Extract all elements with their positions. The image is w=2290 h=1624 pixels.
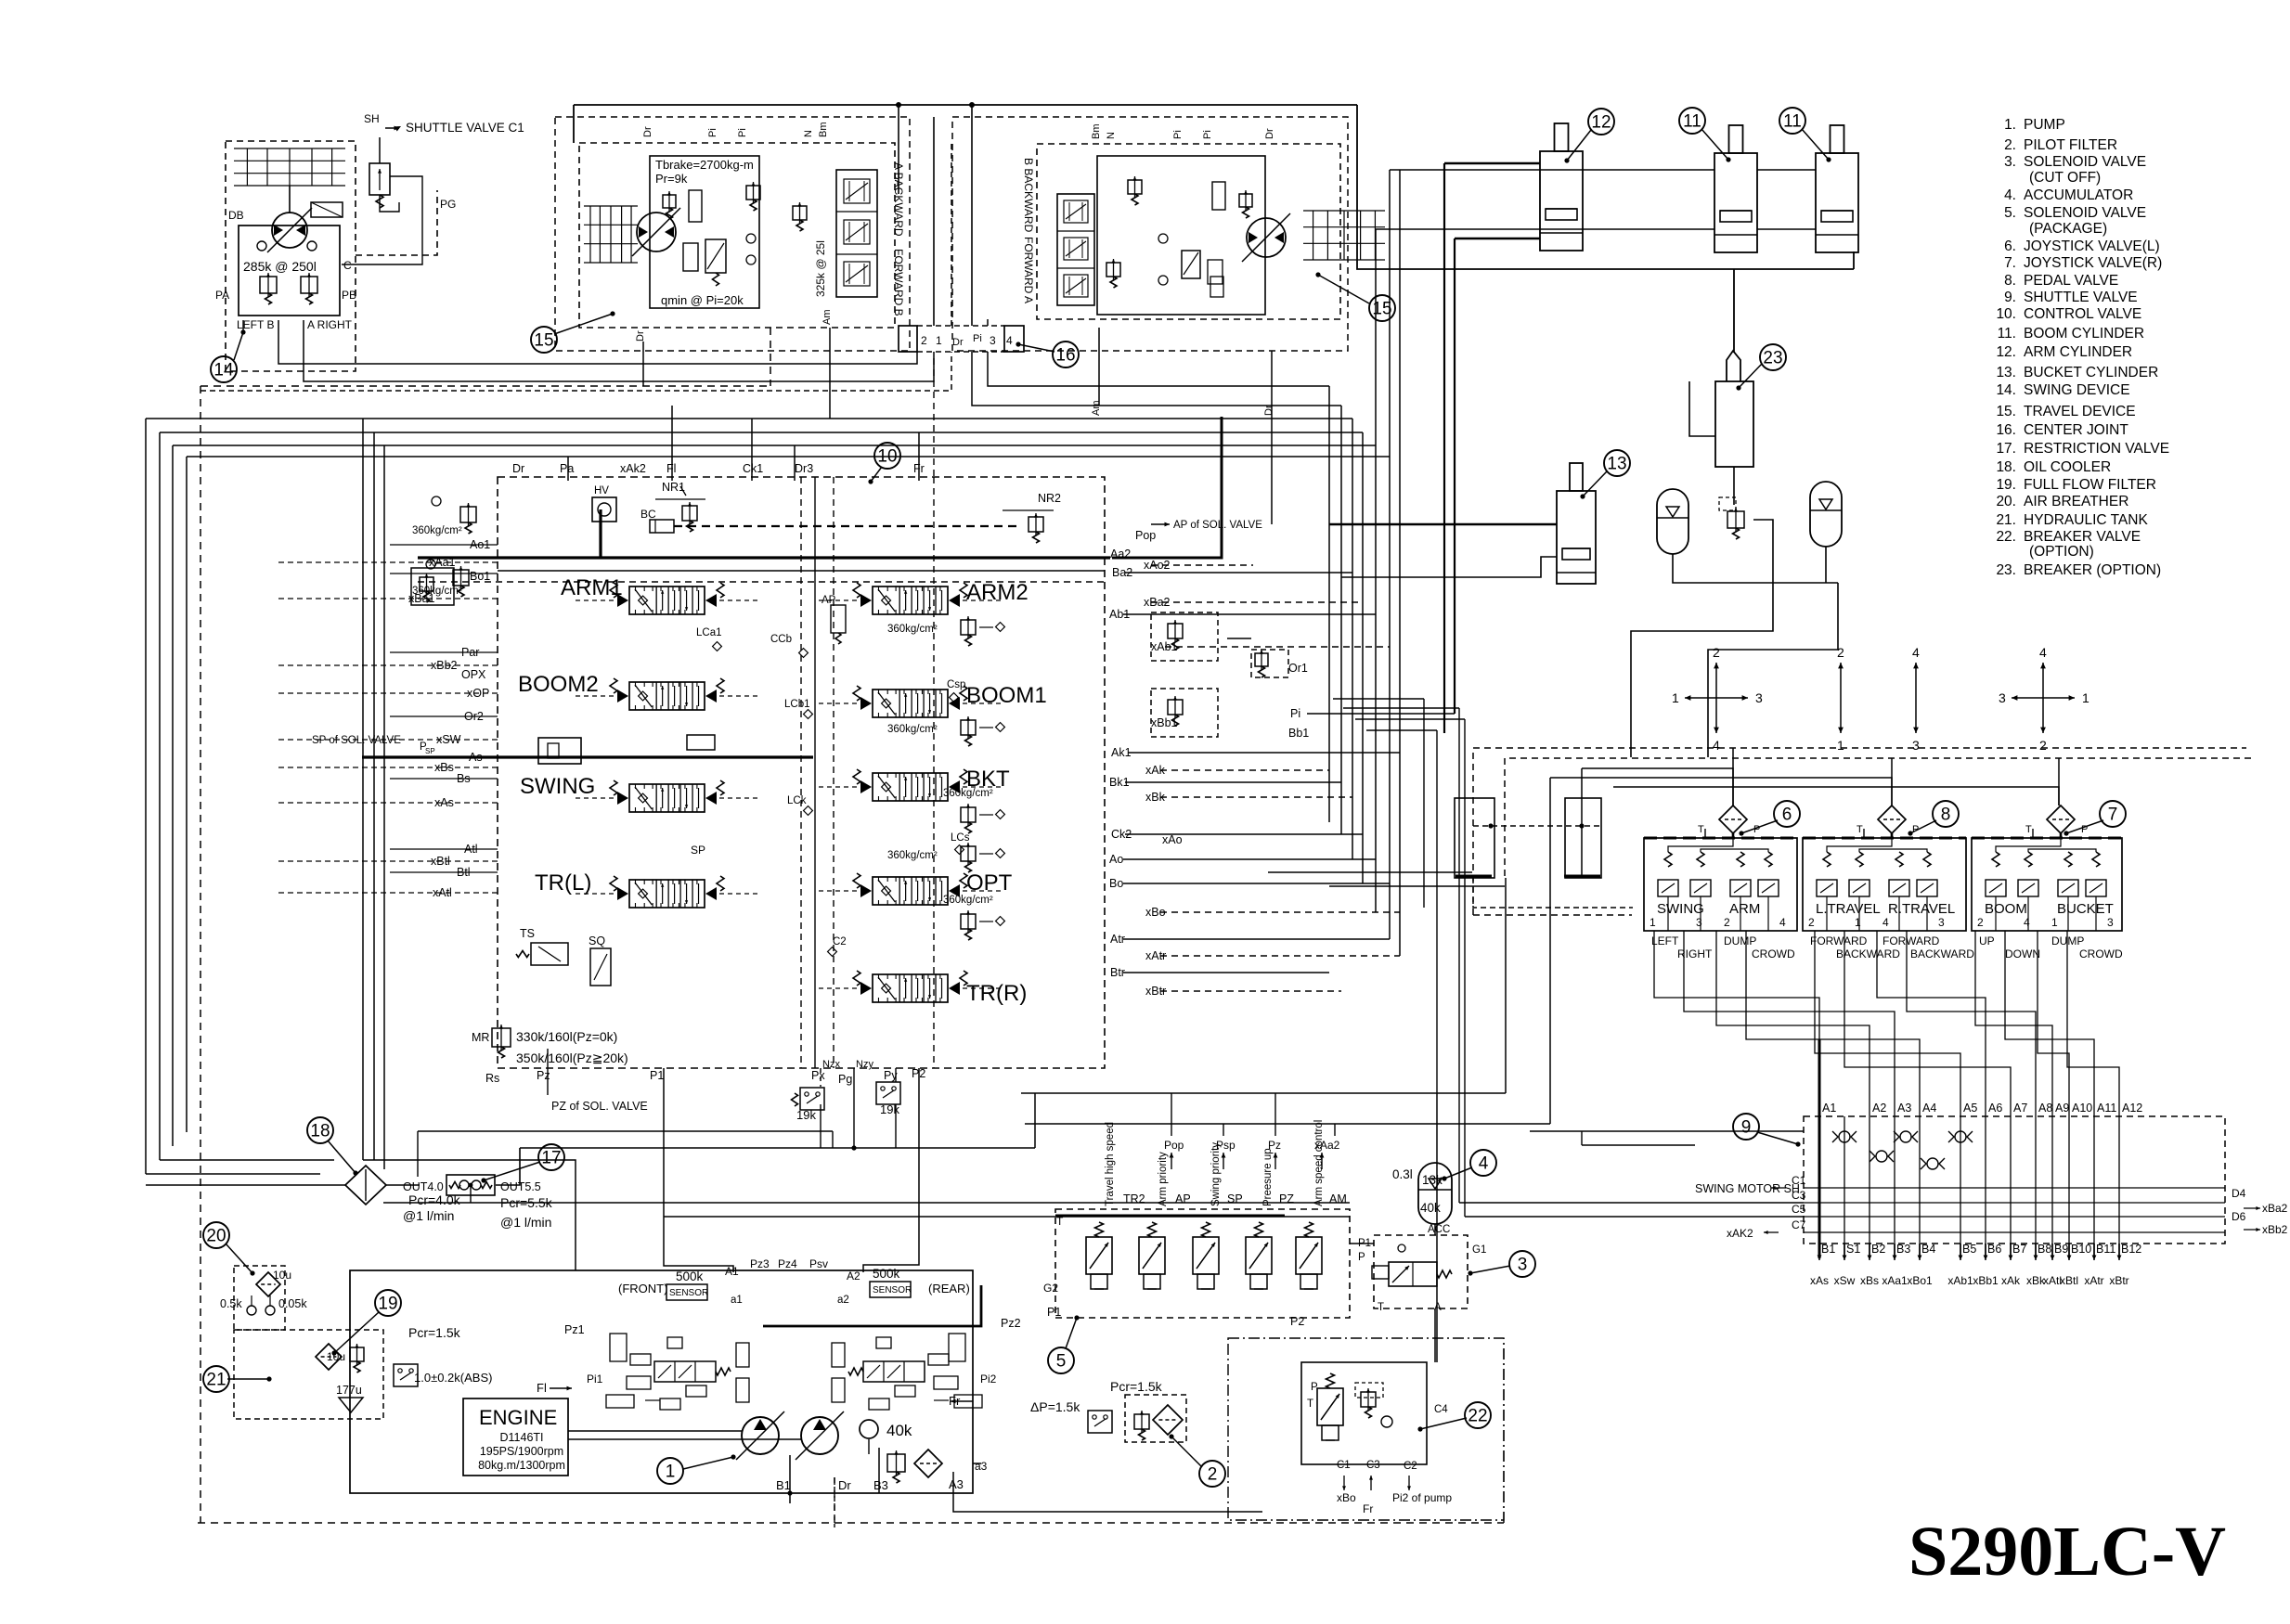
center joint 16 [899, 326, 1024, 352]
svg-text:B1: B1 [1821, 1243, 1835, 1256]
svg-text:OUT5.5: OUT5.5 [500, 1180, 541, 1193]
svg-text:A1: A1 [725, 1265, 739, 1278]
svg-text:Pi2 of pump: Pi2 of pump [1392, 1491, 1452, 1504]
svg-text:0.3l: 0.3l [1392, 1167, 1413, 1181]
svg-text:4: 4 [1479, 1154, 1489, 1174]
svg-text:Psp: Psp [1216, 1139, 1236, 1152]
svg-text:3: 3 [1696, 916, 1702, 929]
svg-text:4: 4 [1882, 916, 1889, 929]
breaker valve 22 [1301, 1362, 1452, 1515]
svg-text:CROWD: CROWD [2079, 947, 2123, 960]
label circle 19 [331, 1290, 401, 1356]
cv spool TR(L) [535, 870, 758, 908]
svg-text:SP: SP [1227, 1192, 1243, 1205]
svg-text:360kg/cm²: 360kg/cm² [943, 895, 993, 906]
label circle 15 right [1315, 272, 1395, 321]
label circle 23 [1736, 344, 1786, 391]
svg-text:B4: B4 [1921, 1243, 1935, 1256]
svg-text:BOOM2: BOOM2 [518, 672, 599, 697]
svg-text:2: 2 [921, 334, 927, 347]
bucket cylinder 13 [1557, 463, 1596, 584]
svg-text:N: N [1106, 132, 1117, 139]
svg-text:330k/160l(Pz=0k): 330k/160l(Pz=0k) [516, 1029, 617, 1044]
svg-text:DUMP: DUMP [2051, 934, 2084, 947]
svg-text:325k @ 25l: 325k @ 25l [814, 240, 827, 297]
svg-text:Pz4: Pz4 [778, 1257, 797, 1270]
label circle 5 [1048, 1315, 1080, 1373]
svg-text:B3: B3 [1896, 1243, 1910, 1256]
arm cylinder 12 [1540, 123, 1583, 251]
svg-text:C1: C1 [1337, 1460, 1351, 1471]
breaker 23 [1715, 351, 1753, 467]
boom cylinder 11 b [1816, 125, 1858, 252]
svg-text:80kg.m/1300rpm: 80kg.m/1300rpm [478, 1459, 565, 1472]
svg-text:9: 9 [1741, 1118, 1752, 1138]
svg-text:BOOM CYLINDER: BOOM CYLINDER [2024, 326, 2144, 342]
svg-text:Dr: Dr [838, 1478, 851, 1492]
svg-text:S1: S1 [1846, 1243, 1860, 1256]
svg-text:A1: A1 [1822, 1102, 1836, 1115]
svg-text:21: 21 [206, 1371, 226, 1390]
svg-text:B8: B8 [2038, 1243, 2051, 1256]
cv right wires [1112, 417, 1455, 991]
solenoid package 5 [1043, 1209, 1350, 1328]
svg-text:3.: 3. [2004, 154, 2016, 170]
svg-text:B BACKWARD: B BACKWARD [1022, 158, 1035, 233]
svg-text:1: 1 [1837, 738, 1844, 753]
cv right aux valves [1151, 612, 1288, 737]
svg-text:B7: B7 [2012, 1243, 2026, 1256]
svg-text:xBtl: xBtl [2060, 1274, 2078, 1287]
svg-text:Dr: Dr [635, 330, 646, 342]
svg-text:Pcr=1.5k: Pcr=1.5k [408, 1325, 461, 1340]
svg-text:Tbrake=2700kg-m: Tbrake=2700kg-m [655, 158, 754, 172]
label circle 4 [1442, 1150, 1496, 1181]
label circle 11 a [1679, 108, 1731, 162]
cv spool OPT [819, 870, 1013, 905]
cross arrows 4 [1999, 645, 2089, 753]
cross arrows 3 [1912, 645, 1920, 753]
cylinder feed wires [1376, 163, 1816, 939]
svg-text:JOYSTICK VALVE(L): JOYSTICK VALVE(L) [2024, 238, 2160, 254]
svg-text:3: 3 [1755, 690, 1763, 705]
pump-solenoid wires [520, 1068, 1435, 1362]
svg-text:Dr: Dr [1264, 128, 1275, 139]
svg-text:Pa: Pa [560, 462, 574, 475]
svg-text:15: 15 [534, 331, 553, 351]
travel device 15 right [952, 117, 1385, 416]
svg-text:A3: A3 [949, 1477, 964, 1491]
svg-text:17.: 17. [1996, 441, 2016, 457]
shuttle valve grid 9 [1695, 1039, 2288, 1287]
svg-text:a1: a1 [731, 1295, 743, 1306]
svg-text:ARM1: ARM1 [561, 575, 623, 600]
svg-text:14: 14 [213, 361, 234, 380]
svg-text:LEFT B: LEFT B [237, 318, 274, 331]
cv spool BOOM2 [518, 672, 758, 710]
svg-text:2: 2 [1808, 916, 1815, 929]
svg-text:SWING: SWING [1657, 901, 1704, 917]
svg-text:A4: A4 [1922, 1102, 1936, 1115]
engine box [350, 1270, 973, 1493]
svg-text:3: 3 [1518, 1256, 1528, 1275]
svg-text:SP: SP [425, 747, 435, 755]
svg-text:4: 4 [2039, 645, 2047, 660]
svg-text:L.TRAVEL: L.TRAVEL [1816, 901, 1881, 917]
svg-text:AP: AP [1175, 1192, 1191, 1205]
label circle 18 [307, 1117, 358, 1176]
svg-text:A9: A9 [2055, 1102, 2069, 1115]
svg-text:Nzy: Nzy [856, 1059, 873, 1070]
svg-text:SHUTTLE VALVE C1: SHUTTLE VALVE C1 [406, 121, 524, 135]
svg-text:20: 20 [206, 1227, 226, 1246]
svg-text:C4: C4 [1434, 1404, 1448, 1415]
svg-text:B12: B12 [2121, 1243, 2141, 1256]
pump group labels [537, 1257, 1021, 1408]
svg-text:1: 1 [1672, 690, 1679, 705]
svg-text:BC: BC [640, 508, 656, 521]
svg-text:LCb1: LCb1 [784, 699, 810, 710]
svg-text:Dr: Dr [642, 126, 653, 137]
svg-text:C3: C3 [1366, 1460, 1380, 1471]
cv spool ARM2 [819, 580, 1029, 614]
svg-text:1: 1 [1650, 916, 1656, 929]
svg-text:LCs: LCs [951, 832, 970, 844]
svg-text:B11: B11 [2096, 1243, 2115, 1256]
joystick valve 6 [1644, 801, 1800, 960]
svg-text:7: 7 [2108, 806, 2118, 825]
svg-text:MR: MR [472, 1031, 489, 1044]
svg-text:P1: P1 [650, 1069, 664, 1082]
svg-text:1: 1 [1855, 916, 1861, 929]
svg-text:5: 5 [1056, 1352, 1067, 1372]
cv spool TR(R) [819, 971, 1027, 1006]
svg-text:3: 3 [2107, 916, 2114, 929]
svg-text:xAo: xAo [1162, 833, 1183, 846]
label circle 1 [657, 1454, 736, 1484]
svg-text:BUCKET: BUCKET [2057, 901, 2114, 917]
svg-text:PZ of SOL. VALVE: PZ of SOL. VALVE [551, 1100, 648, 1113]
svg-text:2: 2 [1837, 645, 1844, 660]
legend list [1996, 117, 2169, 578]
svg-text:0.05k: 0.05k [278, 1297, 307, 1310]
svg-text:FORWARD A: FORWARD A [1022, 237, 1035, 303]
left bus wires [146, 320, 1390, 1270]
svg-text:B10: B10 [2071, 1243, 2091, 1256]
svg-text:PUMP: PUMP [2024, 117, 2065, 133]
svg-text:5.: 5. [2004, 205, 2016, 221]
svg-text:DOWN: DOWN [2005, 947, 2040, 960]
svg-text:18: 18 [310, 1122, 330, 1141]
svg-text:Pg: Pg [838, 1073, 852, 1086]
label circle 2 [1169, 1434, 1225, 1487]
svg-text:P2: P2 [1290, 1315, 1304, 1328]
svg-text:N: N [803, 130, 814, 137]
svg-text:Ao: Ao [1109, 853, 1123, 866]
svg-text:4: 4 [1779, 916, 1786, 929]
accumulator 4 [1392, 1163, 1452, 1224]
bucket cylinder wires [1329, 524, 1557, 577]
svg-text:ΔP=1.5k: ΔP=1.5k [1030, 1399, 1080, 1414]
svg-text:Fl: Fl [666, 462, 676, 475]
svg-text:(PACKAGE): (PACKAGE) [2029, 221, 2107, 237]
svg-text:xAk: xAk [2001, 1274, 2021, 1287]
svg-text:B1: B1 [776, 1478, 791, 1492]
svg-text:SH: SH [364, 112, 380, 125]
svg-text:B3: B3 [873, 1478, 888, 1492]
accumulator right [1810, 482, 1842, 547]
svg-text:DUMP: DUMP [1724, 934, 1756, 947]
svg-text:Am: Am [822, 310, 833, 326]
svg-text:PEDAL VALVE: PEDAL VALVE [2024, 273, 2118, 289]
svg-text:360kg/cm²: 360kg/cm² [412, 525, 462, 536]
svg-text:A7: A7 [2013, 1102, 2027, 1115]
svg-text:A5: A5 [1963, 1102, 1977, 1115]
svg-text:xAa2: xAa2 [1314, 1139, 1340, 1152]
svg-text:PG: PG [440, 198, 456, 211]
breaker option dashdot box [1228, 1338, 1504, 1520]
pilot supply dashed lines [1333, 699, 2256, 1217]
svg-text:1: 1 [2051, 916, 2058, 929]
svg-text:SWING DEVICE: SWING DEVICE [2024, 382, 2130, 398]
svg-text:xBb2: xBb2 [431, 659, 458, 672]
svg-text:xAtr: xAtr [2084, 1274, 2103, 1287]
svg-text:B9: B9 [2054, 1243, 2068, 1256]
svg-text:360kg/cm²: 360kg/cm² [887, 850, 938, 861]
svg-text:LCk: LCk [787, 795, 807, 806]
svg-text:BREAKER (OPTION): BREAKER (OPTION) [2024, 562, 2161, 578]
svg-text:(REAR): (REAR) [928, 1282, 970, 1295]
svg-text:a3: a3 [975, 1460, 988, 1473]
svg-text:Nzx: Nzx [822, 1059, 840, 1070]
svg-text:Pi: Pi [707, 128, 718, 137]
svg-text:ARM2: ARM2 [966, 580, 1029, 605]
svg-text:UP: UP [1979, 934, 1995, 947]
svg-text:xBs: xBs [1860, 1274, 1879, 1287]
svg-text:P: P [1358, 1252, 1365, 1263]
label circle 3 [1468, 1251, 1535, 1277]
svg-text:ACC: ACC [1428, 1224, 1450, 1235]
svg-text:SHUTTLE VALVE: SHUTTLE VALVE [2024, 290, 2138, 305]
svg-text:2.: 2. [2004, 137, 2016, 153]
svg-text:ENGINE: ENGINE [479, 1406, 557, 1429]
svg-text:xBo1: xBo1 [1907, 1274, 1933, 1287]
svg-text:11: 11 [1683, 112, 1701, 132]
cross arrows 1 [1672, 645, 1763, 753]
svg-text:350k/160l(Pz≧20k): 350k/160l(Pz≧20k) [516, 1050, 628, 1065]
pump regulator front [606, 1334, 749, 1410]
svg-text:CCb: CCb [770, 634, 792, 645]
svg-text:T: T [1378, 1302, 1384, 1313]
svg-text:SQ: SQ [589, 934, 605, 947]
pump rear [796, 1411, 844, 1460]
svg-text:T: T [1698, 824, 1704, 835]
svg-text:AIR BREATHER: AIR BREATHER [2024, 494, 2128, 509]
pump front [736, 1411, 784, 1460]
svg-text:SOLENOID VALVE: SOLENOID VALVE [2024, 154, 2146, 170]
svg-text:BACKWARD: BACKWARD [1836, 947, 1900, 960]
svg-text:D6: D6 [2232, 1210, 2246, 1223]
svg-text:A3: A3 [1897, 1102, 1911, 1115]
svg-text:TRAVEL DEVICE: TRAVEL DEVICE [2024, 404, 2136, 419]
svg-text:@1 l/min: @1 l/min [403, 1208, 454, 1223]
svg-text:15.: 15. [1996, 404, 2016, 419]
svg-text:B2: B2 [1871, 1243, 1885, 1256]
svg-text:11.: 11. [1998, 326, 2016, 342]
svg-text:3: 3 [1999, 690, 2006, 705]
title S290LC-V [1908, 1513, 2226, 1591]
svg-text:SWING: SWING [520, 774, 595, 799]
svg-text:4: 4 [1713, 738, 1720, 753]
svg-text:Dr: Dr [952, 337, 964, 348]
svg-text:xBtr: xBtr [2109, 1274, 2128, 1287]
svg-text:TR2: TR2 [1123, 1192, 1145, 1205]
svg-text:13: 13 [1607, 455, 1626, 474]
svg-text:RIGHT: RIGHT [1677, 947, 1713, 960]
pump regulator rear [832, 1334, 982, 1410]
svg-text:FORWARD: FORWARD [1810, 934, 1868, 947]
svg-text:TR(R): TR(R) [966, 981, 1027, 1006]
svg-text:xBo: xBo [1337, 1491, 1356, 1504]
label circle 17 [481, 1144, 564, 1183]
svg-text:Pr=9k: Pr=9k [655, 172, 688, 186]
label circle 20 [203, 1222, 255, 1276]
svg-text:ARM: ARM [1729, 901, 1760, 917]
svg-text:360kg/cm²: 360kg/cm² [887, 724, 938, 735]
svg-text:A12: A12 [2122, 1102, 2142, 1115]
svg-text:Fl: Fl [537, 1381, 547, 1395]
svg-text:8.: 8. [2004, 273, 2016, 289]
svg-text:Preesure up: Preesure up [1262, 1148, 1274, 1206]
svg-text:23: 23 [1763, 349, 1782, 368]
svg-text:B6: B6 [1987, 1243, 2001, 1256]
svg-text:Pz3: Pz3 [750, 1257, 770, 1270]
svg-text:20.: 20. [1996, 494, 2016, 509]
svg-text:Pi: Pi [973, 333, 982, 344]
svg-text:(CUT OFF): (CUT OFF) [2029, 170, 2101, 186]
control valve 10 box [498, 477, 1105, 1068]
shuttle valve to C1 note [342, 112, 524, 264]
svg-text:NR2: NR2 [1038, 492, 1061, 505]
svg-text:Pi1: Pi1 [587, 1373, 603, 1386]
svg-text:C: C [343, 259, 352, 272]
main vertical bundle [1021, 170, 1804, 1362]
accumulator left [1657, 489, 1688, 554]
svg-text:S290LC-V: S290LC-V [1908, 1513, 2226, 1591]
svg-text:Btr: Btr [1110, 966, 1125, 979]
svg-text:CROWD: CROWD [1752, 947, 1795, 960]
solenoid cutoff 3 [1358, 1224, 1486, 1313]
svg-text:BOOM: BOOM [1985, 901, 2027, 917]
svg-text:LCa1: LCa1 [696, 627, 722, 638]
restriction valve 17 [446, 1175, 495, 1203]
svg-text:Ck1: Ck1 [743, 462, 763, 475]
svg-text:A10: A10 [2072, 1102, 2092, 1115]
svg-text:1.0±0.2k(ABS): 1.0±0.2k(ABS) [414, 1371, 492, 1385]
label circle 14 [211, 329, 246, 382]
svg-text:SENSOR: SENSOR [873, 1285, 912, 1295]
svg-text:JOYSTICK VALVE(R): JOYSTICK VALVE(R) [2024, 255, 2162, 271]
svg-text:19k: 19k [880, 1102, 899, 1116]
cv bold supply lines [362, 509, 1110, 757]
svg-text:AM: AM [1329, 1192, 1347, 1205]
svg-text:177u: 177u [336, 1384, 362, 1397]
svg-text:4: 4 [1006, 334, 1013, 347]
svg-text:Rs: Rs [485, 1072, 499, 1085]
svg-text:9.: 9. [2004, 290, 2016, 305]
svg-text:22: 22 [1468, 1407, 1487, 1426]
svg-text:285k @ 250l: 285k @ 250l [243, 259, 317, 274]
svg-text:DB: DB [228, 209, 244, 222]
cv internal misc symbols [411, 481, 1061, 605]
label circle 12 [1564, 109, 1614, 163]
svg-text:SENSOR: SENSOR [669, 1288, 708, 1298]
svg-text:11: 11 [1783, 112, 1802, 132]
svg-text:13.: 13. [1996, 365, 2016, 380]
label circle 11 b [1779, 108, 1831, 162]
svg-text:Pcr=1.5k: Pcr=1.5k [1110, 1379, 1163, 1394]
svg-text:Am: Am [1091, 401, 1102, 417]
svg-text:4: 4 [2024, 916, 2030, 929]
svg-text:P1: P1 [1047, 1306, 1061, 1319]
svg-text:C2: C2 [1404, 1461, 1417, 1472]
swing device 14 [215, 141, 437, 371]
joystick to grid wires [1654, 931, 2119, 1116]
svg-text:Pop: Pop [1135, 529, 1156, 542]
svg-text:G2: G2 [1043, 1282, 1058, 1295]
svg-text:A2: A2 [847, 1270, 860, 1282]
svg-text:2: 2 [1208, 1465, 1218, 1485]
svg-text:A2: A2 [1872, 1102, 1886, 1115]
svg-text:3: 3 [990, 334, 996, 347]
svg-text:xBb1: xBb1 [1973, 1274, 1999, 1287]
svg-text:3: 3 [1938, 916, 1945, 929]
svg-text:7.: 7. [2004, 255, 2016, 271]
svg-text:Bo: Bo [1109, 877, 1123, 890]
svg-text:(FRONT): (FRONT) [618, 1282, 667, 1295]
cv internal port diamonds [538, 595, 970, 956]
svg-text:A6: A6 [1988, 1102, 2002, 1115]
svg-text:Bm: Bm [818, 122, 829, 138]
label circle 21 [203, 1366, 272, 1392]
svg-text:OUT4.0: OUT4.0 [403, 1180, 444, 1193]
cv relief valves 360kg [887, 616, 1004, 940]
air breather 20 [220, 1266, 307, 1330]
svg-text:1: 1 [666, 1463, 676, 1482]
svg-text:RESTRICTION VALVE: RESTRICTION VALVE [2024, 441, 2169, 457]
svg-text:A RIGHT: A RIGHT [307, 318, 353, 331]
cv-top staircase wires [568, 406, 919, 481]
svg-text:360kg/cm²: 360kg/cm² [943, 788, 993, 799]
svg-text:Dr: Dr [512, 462, 524, 475]
svg-text:Pz: Pz [1268, 1139, 1281, 1152]
svg-text:AP of SOL. VALVE: AP of SOL. VALVE [1173, 520, 1262, 531]
svg-text:BOOM1: BOOM1 [966, 683, 1047, 708]
cv spool BKT [819, 767, 1010, 801]
svg-text:500k: 500k [873, 1267, 900, 1281]
svg-text:OPT: OPT [966, 870, 1013, 896]
svg-text:CONTROL VALVE: CONTROL VALVE [2024, 306, 2141, 322]
svg-text:Psv: Psv [809, 1257, 828, 1270]
cv bottom port labels [485, 1049, 925, 1122]
restriction valve texts [403, 1180, 553, 1230]
svg-text:Dr3: Dr3 [795, 462, 813, 475]
svg-text:500k: 500k [676, 1270, 704, 1283]
svg-text:21.: 21. [1996, 512, 2016, 528]
swing motor pilot lines [383, 1203, 1804, 1217]
svg-text:A11: A11 [2097, 1102, 2116, 1115]
svg-text:12.: 12. [1996, 344, 2016, 360]
